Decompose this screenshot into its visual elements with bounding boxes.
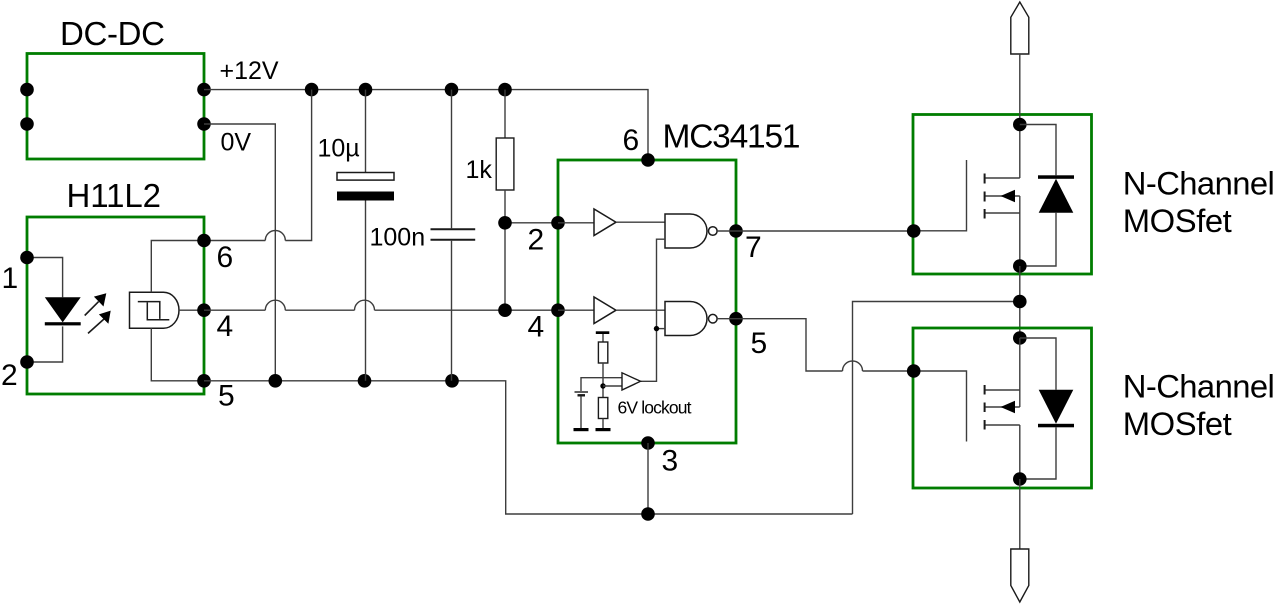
optocoupler U1 H11L2 box [27, 177, 204, 394]
node DC-DC +12V output pin [197, 83, 211, 97]
diode D3 body diode Q2 [1020, 338, 1074, 479]
wire MC34151 pin5 to lower FET gate with jump [736, 319, 914, 371]
ground reference [574, 428, 589, 431]
wire gate Vcc to H11L2 pin6 row with jump over 0V [151, 90, 311, 293]
driver U2 MC34151 box [558, 119, 801, 444]
node DC-DC left pin b [20, 117, 34, 131]
wire +12V rail [204, 57, 648, 160]
wire gate gnd to H11L2 pin5 row [151, 328, 204, 381]
svg-text:H11L2: H11L2 [67, 177, 162, 214]
svg-text:7: 7 [745, 231, 762, 264]
svg-text:MC34151: MC34151 [663, 119, 801, 156]
node ground row at 0V [269, 374, 283, 388]
buffer U2C input channel B [558, 297, 665, 324]
node pin4 row at tie [498, 303, 512, 317]
wire R2 to divider node [602, 363, 604, 398]
ground lockout resistor [596, 428, 611, 431]
comparator U2E lockout [622, 373, 641, 390]
wire reference to comparator input [581, 378, 622, 391]
N-Channel MOSFET Q2 box lower [913, 328, 1275, 488]
svg-text:2: 2 [1, 359, 18, 392]
node MC34151 pin2 [551, 216, 565, 230]
node H11L2 pin4 [197, 303, 211, 317]
NAND gate U2D channel B [665, 302, 736, 336]
wire MC34151 pin3 down [647, 443, 649, 514]
resistor R1 1k pull-up [466, 90, 514, 223]
node ground row at 10u [358, 374, 372, 388]
wire 1k to MC34151 pin2 [505, 222, 558, 224]
DC-DC converter module U3 box [27, 15, 204, 159]
svg-text:MOSfet: MOSfet [1123, 202, 1232, 239]
capacitor C2 100n [370, 90, 476, 381]
LED light arrow 2 [88, 311, 111, 334]
wire 0V net [204, 124, 275, 381]
node Q1 gate [907, 224, 921, 238]
node pin3 joins ground loop [641, 507, 655, 521]
transistor Q2 symbol [914, 338, 1020, 479]
node H11L2 pin6 [197, 234, 211, 248]
wire reference to ground [580, 396, 582, 428]
svg-text:MOSfet: MOSfet [1123, 405, 1232, 442]
wire Q2 source to bottom terminal [1019, 479, 1021, 549]
buffer U2A input channel A [558, 209, 665, 236]
svg-text:4: 4 [217, 310, 234, 343]
schmitt detector gate inside H11L2 [130, 292, 205, 328]
svg-text:DC-DC: DC-DC [60, 15, 165, 52]
node Q1 drain [1013, 118, 1027, 132]
node ground row at 100n [445, 374, 459, 388]
svg-text:100n: 100n [370, 223, 426, 251]
node Q2 source [1013, 472, 1027, 486]
NAND gate U2B channel A [665, 214, 736, 248]
LED light arrow 1 [85, 293, 107, 315]
wire tie pin2 node to pin4 node [504, 223, 506, 310]
node H11L2 pin1 [20, 251, 34, 265]
svg-text:N-Channel: N-Channel [1123, 165, 1275, 202]
terminal arrow top [1011, 2, 1029, 54]
node lockout branch to U2D [654, 326, 659, 331]
wire MC34151 pin7 to upper FET gate [736, 230, 914, 232]
svg-text:5: 5 [218, 380, 235, 413]
diode D2 body diode Q1 [1020, 125, 1074, 267]
svg-text:6V lockout: 6V lockout [618, 397, 692, 417]
transistor Q1 symbol [914, 160, 1020, 266]
LED D1 [45, 297, 81, 325]
node Q1 source [1013, 259, 1027, 273]
wire lockout output to NAND inputs [641, 239, 666, 381]
node MC34151 pin3 [641, 436, 655, 450]
resistor R3 lockout lower [598, 398, 607, 419]
battery B1 reference [575, 392, 589, 395]
svg-text:1: 1 [2, 262, 19, 295]
svg-text:1k: 1k [466, 156, 493, 184]
node +12V junction at H11L2 pin6 riser [305, 83, 319, 97]
wire R3 to ground [602, 419, 604, 429]
wire divider node to comparator input [603, 385, 622, 387]
wire Q1 source to Q2 drain [1019, 266, 1021, 338]
svg-text:4: 4 [528, 310, 545, 343]
svg-text:6: 6 [217, 241, 234, 274]
svg-text:5: 5 [751, 327, 768, 360]
wire top terminal to Q1 drain [1019, 54, 1021, 178]
node +12V junction at 100n [445, 83, 459, 97]
node Q2 drain [1013, 331, 1027, 345]
wire ground row pin5 to lower loop [204, 381, 853, 514]
wire tap to lockout resistor [602, 334, 604, 342]
node Q2 gate [907, 364, 921, 378]
N-Channel MOSFET Q1 box upper [913, 115, 1275, 275]
node DC-DC 0V output pin [197, 117, 211, 131]
node MC34151 pin7 [729, 224, 743, 238]
node 1k bottom pin2 row [498, 216, 512, 230]
node +12V junction at 10u [359, 83, 373, 97]
svg-text:2: 2 [528, 223, 545, 256]
node DC-DC left pin a [20, 83, 34, 97]
svg-text:+12V: +12V [220, 57, 279, 85]
wire LED cathode to H11L2 pin2 [27, 326, 63, 362]
node FET midpoint junction [1013, 295, 1027, 309]
terminal arrow bottom [1011, 549, 1029, 602]
wire H11L2 pin1 to LED anode [27, 258, 63, 298]
svg-text:6: 6 [623, 124, 640, 157]
node lockout divider [600, 383, 605, 388]
capacitor C1 10u electrolytic [318, 90, 395, 381]
resistor R2 lockout upper [598, 342, 607, 363]
svg-text:0V: 0V [221, 129, 252, 157]
node H11L2 pin5 [197, 374, 211, 388]
node +12V junction at 1k [498, 83, 512, 97]
node MC34151 pin5 [729, 312, 743, 326]
wire ground loop riser to FET midpoint [853, 302, 1020, 515]
svg-text:3: 3 [662, 444, 679, 477]
wire H11L2 pin4 row to MC34151 pin4 with jumps over 0V and 10u [204, 300, 558, 310]
svg-text:N-Channel: N-Channel [1123, 368, 1275, 405]
node H11L2 pin2 [20, 355, 34, 369]
svg-text:10µ: 10µ [318, 135, 360, 163]
6V lockout supply tap bar [596, 331, 610, 334]
node MC34151 pin6 [641, 153, 655, 167]
node MC34151 pin4 [551, 303, 565, 317]
